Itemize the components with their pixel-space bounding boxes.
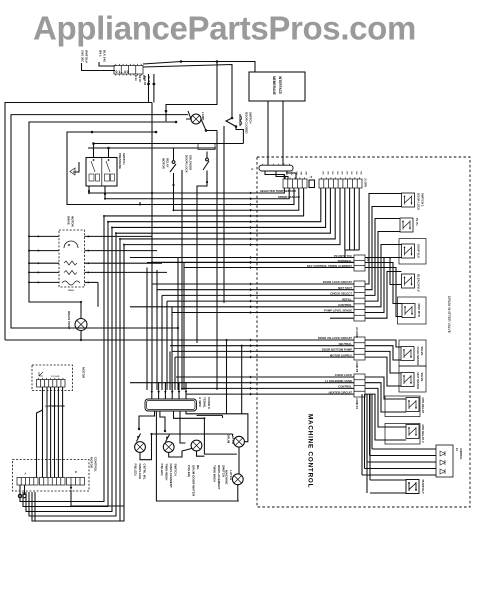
svg-text:KEY CONTROL TERML CURRENT: KEY CONTROL TERML CURRENT <box>307 264 352 268</box>
svg-text:SOAP VLV: SOAP VLV <box>417 244 421 258</box>
svg-text:A: A <box>25 473 27 476</box>
svg-text:BLEACH VLV: BLEACH VLV <box>417 274 421 292</box>
svg-text:DRUM SHIFTER VALVE: DRUM SHIFTER VALVE <box>447 296 451 334</box>
svg-text:BK: BK <box>336 172 338 176</box>
svg-text:P.I.: P.I. <box>455 448 457 452</box>
svg-text:MOTOR: MOTOR <box>90 457 94 469</box>
svg-text:DOOR LOCK: DOOR LOCK <box>417 193 421 210</box>
svg-text:CNTRL WL: CNTRL WL <box>143 464 147 480</box>
svg-text:BK: BK <box>331 172 333 176</box>
svg-text:J1 GRN: J1 GRN <box>364 178 367 187</box>
svg-text:PUMP RLY: PUMP RLY <box>421 480 425 494</box>
svg-text:DRIVE: DRIVE <box>67 216 71 225</box>
svg-text:P1 Px: P1 Px <box>415 218 419 226</box>
svg-text:INTERFACE: INTERFACE <box>278 76 282 94</box>
svg-text:CONN 8: CONN 8 <box>207 397 211 409</box>
svg-text:18D: 18D <box>142 75 146 80</box>
svg-text:DISP MTR: DISP MTR <box>417 304 421 317</box>
svg-text:WH: WH <box>300 172 302 176</box>
svg-text:WHT BLK: WHT BLK <box>85 50 89 64</box>
svg-text:VALVE: VALVE <box>420 373 424 382</box>
svg-text:P3(LED): P3(LED) <box>134 464 138 476</box>
svg-text:HTR RELAY 2: HTR RELAY 2 <box>421 425 425 443</box>
svg-text:MOTOR: MOTOR <box>71 216 75 228</box>
svg-text:LATCH: LATCH <box>229 470 233 481</box>
svg-text:WL: WL <box>196 465 200 470</box>
svg-text:B 2A: B 2A <box>134 75 138 81</box>
svg-text:DOOR UN-LOCK CIRCUIT: DOOR UN-LOCK CIRCUIT <box>318 336 352 340</box>
svg-text:SWITCH: SWITCH <box>222 465 226 478</box>
svg-text:WH: WH <box>290 172 292 176</box>
svg-text:P3 CNTL TVC: P3 CNTL TVC <box>334 254 352 258</box>
svg-text:DISPLACEMENT: DISPLACEMENT <box>169 464 173 489</box>
svg-text:MOTOR: MOTOR <box>162 158 166 170</box>
svg-text:WH: WH <box>304 172 306 176</box>
svg-text:BK: BK <box>341 172 343 176</box>
svg-text:PUMP LEVEL SENSE: PUMP LEVEL SENSE <box>324 309 352 313</box>
svg-text:HTR RELAY: HTR RELAY <box>421 398 425 414</box>
svg-text:CONTROL: CONTROL <box>459 448 461 460</box>
svg-text:DRUM: DRUM <box>227 434 231 444</box>
svg-text:CONTROL: CONTROL <box>338 385 352 389</box>
svg-text:B: B <box>75 471 77 474</box>
svg-text:CONN P4: CONN P4 <box>355 398 358 410</box>
svg-text:BN 1: BN 1 <box>99 50 103 57</box>
svg-text:BK: BK <box>345 172 347 176</box>
svg-text:DOOR CLOSED: DOOR CLOSED <box>245 112 249 134</box>
svg-text:TACH: TACH <box>68 289 74 292</box>
svg-text:P3(LED): P3(LED) <box>187 465 191 477</box>
svg-text:VALVE: VALVE <box>420 347 424 356</box>
svg-text:SPEED SENSOR: SPEED SENSOR <box>278 195 300 199</box>
svg-text:BLK 14G: BLK 14G <box>103 50 107 63</box>
svg-text:SWITCH: SWITCH <box>174 464 178 477</box>
svg-text:PRESSURE: PRESSURE <box>118 153 122 169</box>
svg-text:LATCH: LATCH <box>231 434 235 445</box>
svg-text:CHECK SELECT: CHECK SELECT <box>330 292 352 296</box>
svg-text:DOOR LOCK CIRCUIT: DOOR LOCK CIRCUIT <box>323 280 353 284</box>
svg-text:SWITCH 2: SWITCH 2 <box>421 193 425 207</box>
svg-text:BK: BK <box>326 172 328 176</box>
svg-text:NEUTRAL: NEUTRAL <box>339 342 353 346</box>
svg-text:P3(LED): P3(LED) <box>160 464 164 476</box>
svg-text:SWITCH: SWITCH <box>122 153 126 164</box>
svg-text:1 2 3 4 5: 1 2 3 4 5 <box>51 375 60 378</box>
svg-text:A 4WD: A 4WD <box>198 397 202 408</box>
svg-text:CONN P8: CONN P8 <box>355 361 358 373</box>
svg-text:TERML: TERML <box>203 397 207 408</box>
svg-text:MACHINE CONTROL: MACHINE CONTROL <box>307 414 314 488</box>
svg-text:REFILL: REFILL <box>342 297 352 301</box>
svg-text:1B 4C: 1B 4C <box>138 75 142 82</box>
svg-text:MOTOR: MOTOR <box>82 367 86 379</box>
svg-text:BK: BK <box>350 172 352 176</box>
svg-text:SWITCH: SWITCH <box>249 112 253 123</box>
svg-text:DRAIN PUMP: DRAIN PUMP <box>67 311 71 329</box>
svg-text:L1 SOLENOID VEND: L1 SOLENOID VEND <box>325 379 352 383</box>
svg-text:BK: BK <box>355 172 357 176</box>
svg-text:J4 CONN: J4 CONN <box>355 327 358 338</box>
svg-text:COLD WATER: COLD WATER <box>416 347 420 366</box>
svg-text:BK: BK <box>360 172 362 176</box>
svg-text:DOOR BOTTOM PUMP: DOOR BOTTOM PUMP <box>322 348 352 352</box>
svg-text:HARNESS 4WD: HARNESS 4WD <box>46 404 65 408</box>
svg-text:0 1 - 4 0: 0 1 - 4 0 <box>116 70 129 74</box>
svg-text:CHS 30C: CHS 30C <box>81 50 85 63</box>
svg-text:BK: BK <box>322 172 324 176</box>
svg-text:DISPLACEMENT: DISPLACEMENT <box>217 465 221 490</box>
svg-text:MOTOR SUPPLY: MOTOR SUPPLY <box>330 353 352 357</box>
svg-text:MEMBRANE: MEMBRANE <box>272 76 276 95</box>
svg-text:LAMP: LAMP <box>201 112 205 120</box>
svg-text:SELECTED TEMP SENSOR: SELECTED TEMP SENSOR <box>260 189 296 193</box>
svg-text:DRUM DOOR WATER: DRUM DOOR WATER <box>192 465 196 497</box>
svg-text:TWIN WISH: TWIN WISH <box>165 464 169 482</box>
svg-text:HOT WATER: HOT WATER <box>416 373 420 390</box>
svg-text:WH: WH <box>295 172 297 176</box>
svg-text:HEATER CIRCUIT: HEATER CIRCUIT <box>329 390 353 394</box>
svg-text:TERMINAL: TERMINAL <box>338 259 353 263</box>
svg-text:b: b <box>252 167 254 171</box>
svg-text:CONTROL: CONTROL <box>94 457 98 472</box>
svg-text:CHILD LOCK: CHILD LOCK <box>335 373 352 377</box>
svg-text:TWIN WISH: TWIN WISH <box>213 465 217 483</box>
svg-text:RELAY: RELAY <box>166 158 170 168</box>
svg-text:CONTROL: CONTROL <box>338 303 352 307</box>
svg-text:SOLENOID: SOLENOID <box>189 155 193 170</box>
svg-text:DOOR LOCK: DOOR LOCK <box>185 155 189 174</box>
svg-text:NOT TACT: NOT TACT <box>338 286 352 290</box>
svg-text:DISPLACE: DISPLACE <box>138 464 142 480</box>
svg-text:AppliancePartsPros.com: AppliancePartsPros.com <box>33 10 416 47</box>
